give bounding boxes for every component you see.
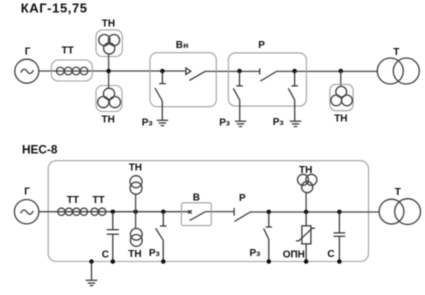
svg-text:ТТ: ТТ	[62, 46, 74, 57]
svg-text:з: з	[226, 118, 230, 128]
svg-text:Р: Р	[239, 193, 246, 204]
svg-text:В: В	[193, 193, 200, 204]
svg-text:В: В	[176, 40, 183, 51]
svg-text:ТН: ТН	[334, 114, 347, 125]
svg-text:ТН: ТН	[299, 165, 312, 176]
svg-text:ТН: ТН	[102, 19, 115, 30]
svg-text:ОПН: ОПН	[283, 249, 305, 260]
svg-text:ТН: ТН	[128, 249, 141, 260]
svg-text:С: С	[102, 249, 109, 260]
svg-text:з: з	[256, 248, 260, 258]
svg-text:ТТ: ТТ	[92, 195, 104, 206]
svg-text:Т: Т	[393, 47, 399, 58]
svg-text:з: з	[148, 118, 152, 128]
svg-text:з: з	[279, 117, 283, 127]
svg-text:н: н	[183, 40, 188, 50]
svg-text:КАГ-15,75: КАГ-15,75	[21, 1, 88, 16]
svg-text:ТН: ТН	[129, 163, 142, 174]
svg-text:НЕС-8: НЕС-8	[22, 142, 58, 156]
svg-text:з: з	[156, 248, 160, 258]
svg-text:Г: Г	[24, 187, 30, 198]
svg-text:С: С	[327, 249, 334, 260]
svg-text:Т: Т	[395, 187, 401, 198]
svg-text:Р: Р	[258, 40, 265, 51]
svg-text:Г: Г	[25, 46, 31, 57]
svg-text:ТН: ТН	[102, 114, 115, 125]
svg-text:ТТ: ТТ	[67, 195, 79, 206]
